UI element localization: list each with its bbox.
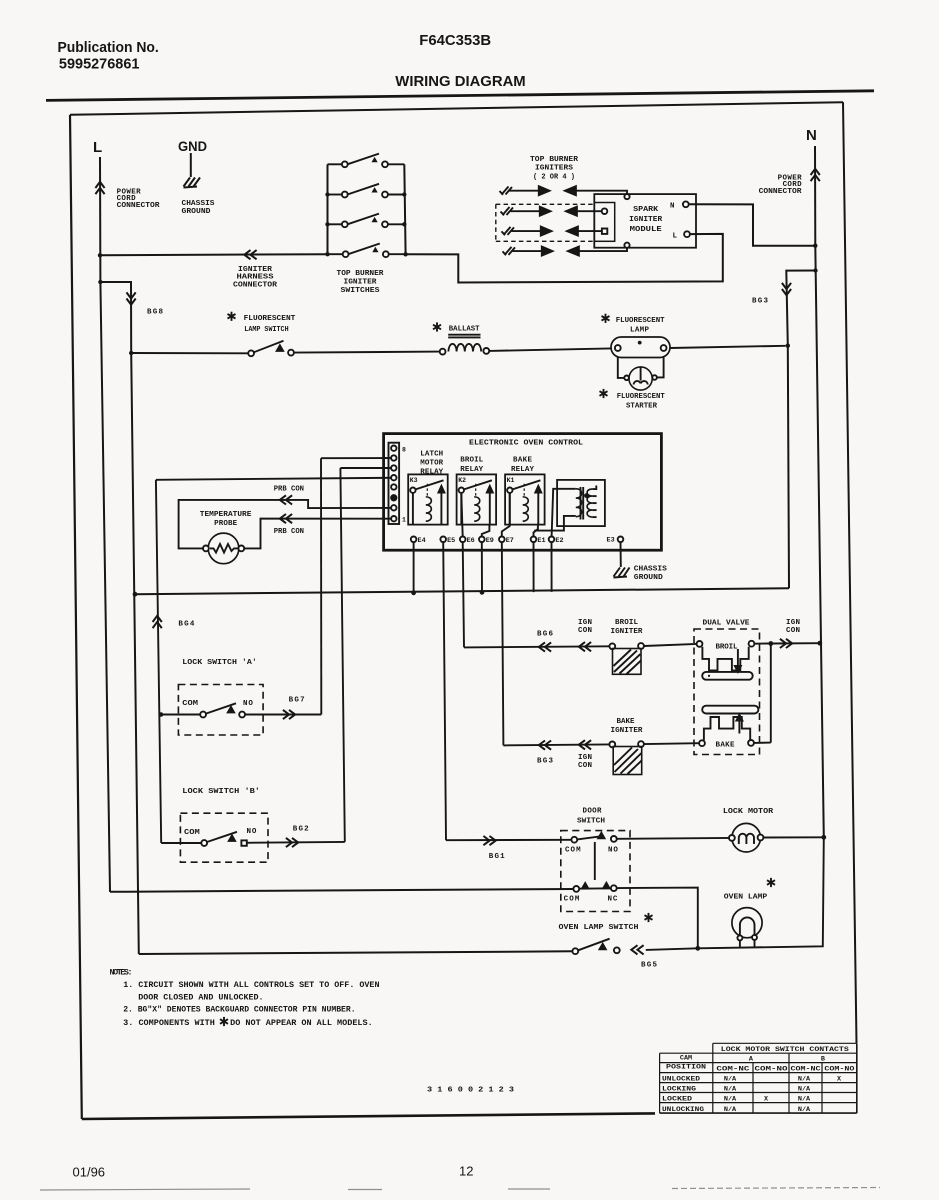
svg-text:FLUORESCENT: FLUORESCENT: [616, 317, 665, 325]
svg-text:GND: GND: [178, 138, 207, 154]
svg-text:PRB CON: PRB CON: [274, 485, 304, 493]
svg-text:BALLAST: BALLAST: [449, 325, 480, 333]
svg-text:N/A: N/A: [724, 1106, 737, 1114]
svg-text:E5: E5: [447, 537, 455, 545]
svg-text:E9: E9: [486, 537, 494, 545]
svg-text:DUAL VALVE: DUAL VALVE: [703, 620, 751, 628]
svg-text:SWITCH: SWITCH: [577, 818, 605, 826]
svg-text:LOCK SWITCH 'B': LOCK SWITCH 'B': [182, 788, 260, 796]
svg-text:N: N: [670, 203, 675, 211]
svg-text:BAKE: BAKE: [513, 457, 532, 465]
svg-text:BAKE: BAKE: [617, 718, 635, 726]
svg-text:E3: E3: [607, 537, 615, 545]
svg-text:E2: E2: [555, 537, 563, 545]
svg-text:NO: NO: [247, 828, 257, 836]
svg-text:COM-NC: COM-NC: [716, 1065, 749, 1073]
svg-text:K2: K2: [458, 477, 466, 484]
svg-text:IGN: IGN: [786, 619, 800, 627]
svg-text:GROUND: GROUND: [634, 574, 664, 582]
svg-text:BG4: BG4: [178, 621, 194, 629]
svg-text:N/A: N/A: [798, 1085, 811, 1093]
svg-text:RELAY: RELAY: [420, 469, 443, 477]
svg-text:01/96: 01/96: [73, 1165, 106, 1180]
svg-text:BG3: BG3: [537, 758, 553, 766]
svg-text:FLUORESCENT: FLUORESCENT: [244, 315, 296, 323]
svg-text:N/A: N/A: [798, 1106, 811, 1114]
svg-text:DOOR CLOSED AND UNLOCKED.: DOOR CLOSED AND UNLOCKED.: [138, 992, 263, 1002]
svg-text:8: 8: [402, 447, 406, 454]
svg-text:K1: K1: [507, 477, 515, 484]
svg-text:IGNITER: IGNITER: [611, 727, 643, 735]
svg-text:L: L: [673, 233, 678, 241]
svg-text:12: 12: [459, 1164, 473, 1179]
svg-text:TEMPERATURE: TEMPERATURE: [200, 511, 252, 519]
svg-text:TOP BURNER: TOP BURNER: [337, 270, 385, 278]
svg-text:E1: E1: [537, 537, 545, 545]
svg-text:B: B: [821, 1055, 825, 1063]
svg-text:BROIL: BROIL: [615, 619, 638, 627]
svg-text:RELAY: RELAY: [460, 466, 483, 474]
svg-text:SPARK: SPARK: [633, 206, 659, 214]
svg-text:NO: NO: [243, 700, 253, 708]
svg-text:ELECTRONIC OVEN CONTROL: ELECTRONIC OVEN CONTROL: [469, 440, 584, 448]
svg-text:CHASSIS: CHASSIS: [634, 566, 668, 574]
svg-text:NC: NC: [608, 896, 618, 904]
svg-text:K3: K3: [410, 477, 418, 484]
svg-text:BG8: BG8: [147, 309, 163, 317]
svg-text:PROBE: PROBE: [214, 520, 237, 528]
svg-text:BROIL: BROIL: [716, 644, 738, 652]
svg-text:MOTOR: MOTOR: [420, 460, 443, 468]
svg-text:BG7: BG7: [289, 696, 305, 704]
svg-text:F64C353B: F64C353B: [419, 33, 491, 49]
svg-text:POSITION: POSITION: [666, 1064, 706, 1072]
svg-text:COM: COM: [565, 847, 581, 855]
svg-text:WIRING DIAGRAM: WIRING DIAGRAM: [395, 73, 525, 90]
svg-text:E7: E7: [506, 537, 514, 545]
svg-text:UNLOCKED: UNLOCKED: [662, 1075, 700, 1083]
svg-text:IGN: IGN: [578, 619, 592, 627]
svg-text:STARTER: STARTER: [626, 402, 657, 410]
svg-text:BG3: BG3: [752, 298, 768, 306]
svg-text:IGNITER: IGNITER: [344, 279, 378, 287]
svg-text:CHASSIS: CHASSIS: [182, 200, 216, 208]
svg-text:COM-NO: COM-NO: [755, 1065, 788, 1073]
svg-text:1: 1: [402, 517, 406, 524]
svg-text:OVEN LAMP SWITCH: OVEN LAMP SWITCH: [559, 924, 639, 932]
svg-text:2. BG"X" DENOTES BACKGUARD CON: 2. BG"X" DENOTES BACKGUARD CONNECTOR PIN…: [123, 1004, 355, 1014]
svg-text:3 1 6 0 0 2 1 2 3: 3 1 6 0 0 2 1 2 3: [427, 1087, 515, 1095]
svg-text:BG5: BG5: [641, 962, 657, 970]
svg-text:COM: COM: [182, 700, 198, 708]
svg-text:CON: CON: [786, 627, 800, 635]
svg-text:5995276861: 5995276861: [59, 57, 140, 73]
svg-text:COM: COM: [564, 896, 580, 904]
svg-text:PRB CON: PRB CON: [274, 528, 304, 536]
svg-text:BG1: BG1: [489, 853, 505, 861]
svg-text:UNLOCKING: UNLOCKING: [662, 1106, 704, 1114]
svg-text:N/A: N/A: [724, 1075, 737, 1083]
svg-text:E4: E4: [418, 537, 426, 545]
svg-text:IGNITERS: IGNITERS: [535, 165, 574, 173]
svg-text:RELAY: RELAY: [511, 466, 534, 474]
svg-text:IGN: IGN: [578, 754, 592, 762]
svg-text:( 2 OR 4 ): ( 2 OR 4 ): [533, 173, 575, 181]
svg-text:N/A: N/A: [798, 1075, 811, 1083]
svg-text:LAMP: LAMP: [630, 327, 649, 335]
svg-text:GROUND: GROUND: [182, 208, 212, 216]
svg-text:Publication No.: Publication No.: [58, 40, 159, 56]
svg-text:BROIL: BROIL: [460, 457, 483, 465]
svg-text:COM-NC: COM-NC: [791, 1065, 821, 1073]
svg-text:MODULE: MODULE: [630, 226, 663, 234]
svg-text:TOP BURNER: TOP BURNER: [530, 156, 579, 164]
svg-text:BG2: BG2: [293, 826, 309, 834]
svg-text:CAM: CAM: [680, 1054, 692, 1062]
svg-text:3. COMPONENTS WITH DO NOT AP: 3. COMPONENTS WITH DO NOT APPEAR ON ALL …: [123, 1018, 372, 1028]
svg-text:N/A: N/A: [724, 1095, 737, 1103]
svg-text:CONNECTOR: CONNECTOR: [759, 188, 803, 196]
svg-text:LATCH: LATCH: [420, 451, 443, 459]
svg-text:SWITCHES: SWITCHES: [341, 287, 381, 295]
svg-text:LOCKING: LOCKING: [662, 1085, 696, 1093]
svg-text:FLUORESCENT: FLUORESCENT: [617, 393, 665, 401]
svg-text:OVEN LAMP: OVEN LAMP: [724, 894, 768, 902]
svg-text:COM: COM: [184, 829, 200, 837]
svg-text:CONNECTOR: CONNECTOR: [117, 202, 161, 210]
svg-text:LOCK MOTOR: LOCK MOTOR: [723, 808, 774, 816]
svg-text:CON: CON: [578, 627, 592, 635]
svg-text:N/A: N/A: [724, 1085, 737, 1093]
svg-text:IGNITER: IGNITER: [611, 628, 643, 636]
svg-text:BG6: BG6: [537, 631, 553, 639]
svg-text:CONNECTOR: CONNECTOR: [233, 281, 278, 289]
svg-text:NOTES:: NOTES:: [110, 968, 133, 978]
svg-text:LAMP SWITCH: LAMP SWITCH: [244, 326, 288, 334]
svg-text:LOCKED: LOCKED: [662, 1095, 692, 1103]
svg-text:1. CIRCUIT SHOWN WITH ALL CONT: 1. CIRCUIT SHOWN WITH ALL CONTROLS SET T…: [123, 980, 379, 990]
svg-text:COM-NO: COM-NO: [824, 1065, 854, 1073]
svg-text:BAKE: BAKE: [716, 741, 735, 749]
svg-text:LOCK SWITCH 'A': LOCK SWITCH 'A': [182, 659, 256, 667]
svg-text:N/A: N/A: [798, 1095, 811, 1103]
svg-text:IGNITER: IGNITER: [629, 216, 663, 224]
svg-text:L: L: [93, 139, 102, 156]
svg-text:N: N: [806, 127, 817, 144]
svg-text:LOCK MOTOR SWITCH CONTACTS: LOCK MOTOR SWITCH CONTACTS: [721, 1046, 849, 1054]
svg-text:CON: CON: [578, 762, 592, 770]
svg-text:NO: NO: [608, 847, 618, 855]
svg-text:E6: E6: [467, 537, 475, 545]
svg-text:DOOR: DOOR: [583, 808, 602, 816]
